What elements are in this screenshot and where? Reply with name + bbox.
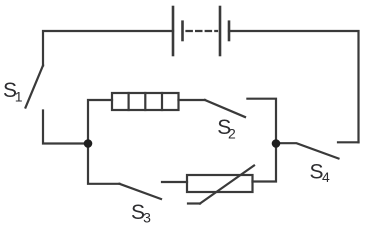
svg-text:1: 1 <box>15 89 23 105</box>
svg-text:2: 2 <box>228 125 236 141</box>
svg-text:4: 4 <box>322 169 330 185</box>
svg-text:3: 3 <box>143 210 151 226</box>
